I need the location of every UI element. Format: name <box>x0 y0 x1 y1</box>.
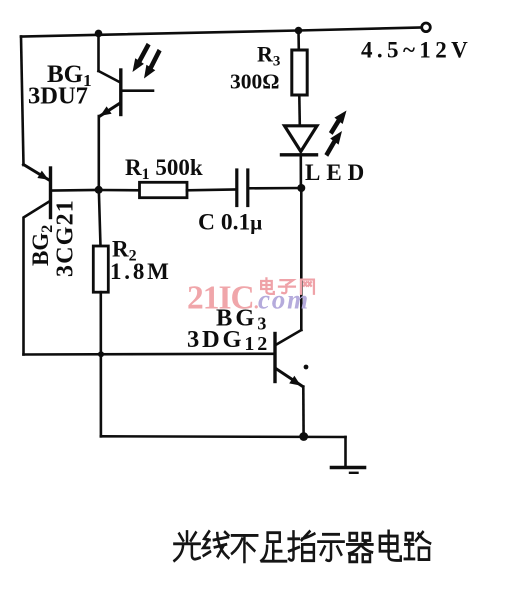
light arrow bolt into BG1 (upper) <box>133 43 151 72</box>
wire C to node B <box>248 187 301 190</box>
wire BG2 collector down left <box>24 201 51 355</box>
transistor BG3 emitter arrowhead <box>289 376 301 386</box>
wire BG3 collector lead <box>300 188 303 330</box>
node junction top of BG1 <box>95 30 103 38</box>
svg-text:21IC.: 21IC. <box>187 280 259 317</box>
transistor Q BG1 collector diagonal <box>99 71 120 82</box>
caption char zhi <box>289 532 315 561</box>
svg-text:C 0.1μ: C 0.1μ <box>198 210 262 236</box>
terminal circle for supply <box>422 23 431 32</box>
capacitor C right plate <box>246 170 249 206</box>
light arrow bolt into BG1 (lower) <box>144 49 162 79</box>
wire node A down to R2 <box>99 192 101 246</box>
node B junction <box>297 184 305 192</box>
wire BG1 base stub <box>122 89 153 92</box>
stray ink dot near BG3 <box>304 365 309 370</box>
wire left rail (BG2 emitter lead) <box>21 37 24 166</box>
caption char guang <box>174 532 199 561</box>
resistor R1 body <box>140 182 188 197</box>
transistor BG2 emitter arrowhead <box>37 171 48 180</box>
caption char shi <box>318 534 343 560</box>
transistor BG1 emitter arrowhead <box>100 106 112 116</box>
watermark char zi <box>279 280 295 293</box>
svg-text:R3: R3 <box>257 42 280 70</box>
watermark char wang <box>301 280 314 294</box>
wire LED to node B <box>299 155 302 188</box>
wire R2 bottom to ground rail <box>100 292 103 436</box>
svg-text:1.8M: 1.8M <box>110 259 172 284</box>
ground tick <box>350 472 358 474</box>
resistor R3 body <box>292 50 307 95</box>
light arrow bolt out of LED (lower) <box>324 131 342 157</box>
light arrow bolt out of LED (upper) <box>329 111 347 135</box>
wire BG3 emitter down <box>302 387 305 437</box>
ground bar <box>332 466 365 470</box>
transistor Q BG2 base bar <box>49 168 52 218</box>
node junction R2/base-line crossing <box>98 351 104 357</box>
caption char zu <box>261 533 286 562</box>
caption char dian2 <box>380 531 401 560</box>
transistor Q BG3 base bar <box>273 334 276 382</box>
caption char lu <box>405 532 430 559</box>
node A junction <box>95 186 103 194</box>
wire BG3 base line across <box>24 352 275 355</box>
wire ground lead <box>344 437 347 467</box>
wire R3 to LED <box>298 95 301 125</box>
transistor Q BG1 emitter diagonal <box>100 104 120 117</box>
watermark char dian <box>261 278 274 294</box>
node junction bottom rail / BG3 emitter <box>299 432 308 441</box>
svg-text:4.5~12V: 4.5~12V <box>361 38 472 63</box>
svg-text:R1 500k: R1 500k <box>125 155 203 183</box>
svg-text:3CG21: 3CG21 <box>53 199 79 277</box>
wire BG1 emitter down to node A <box>98 116 101 187</box>
svg-text:LED: LED <box>305 160 370 185</box>
transistor Q BG2 emitter diagonal <box>24 165 50 181</box>
svg-text:300Ω: 300Ω <box>230 70 279 94</box>
transistor Q BG3 emitter diagonal <box>277 369 303 387</box>
caption char xian <box>203 532 228 558</box>
transistor Q BG1 base bar <box>119 70 122 115</box>
transistor Q BG3 collector diagonal <box>277 330 302 345</box>
caption char bu <box>232 535 257 561</box>
wire BG2 base lead to node A <box>51 189 97 192</box>
diode LED cathode bar <box>282 153 317 156</box>
diode LED triangle <box>285 126 318 152</box>
caption char qi <box>347 533 372 562</box>
wire BG1 collector lead <box>97 34 100 72</box>
wire top supply rail <box>21 28 422 37</box>
wire R1 to C <box>187 188 236 191</box>
svg-text:3DU7: 3DU7 <box>28 83 88 110</box>
capacitor C left plate <box>235 170 238 206</box>
WATERMARK 21IC <box>187 280 310 317</box>
wire R3 top stub <box>297 31 300 51</box>
resistor R2 body <box>93 246 108 292</box>
node junction top of R3 <box>295 27 303 35</box>
wire node A to R1 <box>99 189 140 192</box>
wire bottom rail <box>101 435 346 438</box>
